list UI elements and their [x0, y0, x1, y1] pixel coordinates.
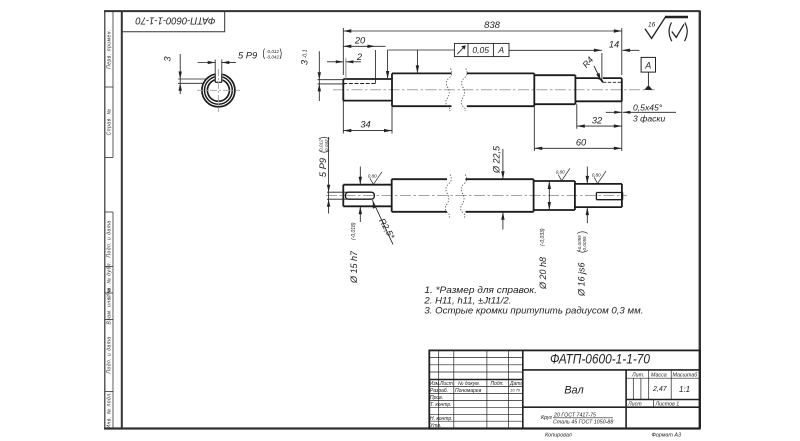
svg-text:Лит.: Лит.: [631, 372, 644, 378]
margin label Perv primen: [107, 29, 113, 428]
svg-text:ФАТП-0600-1-1-70: ФАТП-0600-1-1-70: [550, 352, 650, 367]
R4 callout: [580, 55, 600, 81]
keyway hidden line left (top view): [343, 79, 375, 84]
svg-text:32: 32: [592, 115, 603, 125]
dimension dia 16 js6: [586, 167, 588, 224]
svg-text:Лист: Лист: [627, 401, 642, 407]
runout leader arrows: [388, 50, 455, 78]
roughness symbol general: [645, 17, 688, 39]
dimension 3 (section): [178, 54, 207, 94]
svg-text:Взам. инв. №: Взам. инв. №: [107, 287, 113, 324]
dimension 60: [534, 106, 622, 151]
svg-text:A: A: [644, 61, 651, 71]
datum A symbol: [641, 57, 655, 90]
shaft outline bottom view: [343, 179, 622, 212]
svg-text:3. Острые кромки притупить рад: 3. Острые кромки притупить радиусом 0,3 …: [424, 306, 643, 316]
dimension 3 -0,1 (top view): [318, 51, 346, 101]
svg-text:Подп. и дата: Подп. и дата: [107, 220, 113, 257]
chamfer callout 0,5x45: [606, 111, 676, 113]
dimension 5 P9 (bottom view): [327, 137, 351, 214]
svg-text:Т. контр.: Т. контр.: [430, 402, 452, 408]
svg-text:34: 34: [360, 120, 370, 130]
svg-text:Ø 16 js6: Ø 16 js6: [577, 262, 587, 297]
svg-text:Ø 22,5: Ø 22,5: [492, 145, 502, 174]
svg-text:3: 3: [163, 56, 173, 62]
svg-text:838: 838: [484, 20, 501, 31]
svg-text:0,5x45°: 0,5x45°: [633, 102, 663, 112]
dimension 5 P9 (section): [198, 60, 236, 74]
roughness mark on dia16 keyway: [594, 171, 606, 183]
svg-text:2: 2: [356, 52, 363, 62]
svg-text:1. *Размер для справок.: 1. *Размер для справок.: [424, 285, 537, 295]
dimension 32: [577, 101, 622, 151]
svg-text:60: 60: [576, 137, 587, 147]
dimension 838: [343, 28, 622, 75]
svg-text:Изм.: Изм.: [430, 381, 441, 387]
svg-text:Масса: Масса: [651, 372, 667, 378]
svg-text:Подп.: Подп.: [491, 381, 504, 387]
svg-text:Круг: Круг: [541, 415, 553, 421]
dimension 2: [327, 58, 361, 80]
svg-text:10.70: 10.70: [510, 388, 521, 393]
svg-text:№ докум.: № докум.: [458, 381, 480, 387]
svg-text:14: 14: [609, 39, 619, 49]
svg-text:-0,042: -0,042: [266, 54, 279, 59]
section circles: [202, 74, 235, 107]
dimension dia 20 h8: [548, 181, 550, 210]
svg-text:Копировал: Копировал: [545, 432, 572, 438]
svg-text:Сталь 45 ГОСТ 1050-88: Сталь 45 ГОСТ 1050-88: [553, 420, 613, 426]
thick inner lines: [522, 350, 524, 428]
lit massa masshtab: [627, 372, 698, 407]
centerline bottom view: [326, 195, 627, 197]
svg-text:0,05: 0,05: [472, 45, 489, 55]
below frame texts: [545, 432, 681, 438]
section centerlines: [197, 69, 240, 112]
svg-text:Справ. №: Справ. №: [107, 109, 113, 136]
svg-text:3: 3: [300, 59, 310, 65]
break lines top view: [446, 69, 467, 112]
svg-text:-0,042: -0,042: [324, 139, 329, 152]
svg-text:Утв.: Утв.: [430, 423, 441, 429]
svg-text:Пономарев: Пономарев: [455, 388, 482, 394]
svg-text:-0,1: -0,1: [303, 49, 309, 58]
svg-text:Лист: Лист: [439, 381, 453, 387]
shaft outline top view: [343, 73, 622, 106]
break lines bottom view: [445, 175, 466, 218]
dimension dia 22,5: [502, 149, 504, 230]
svg-text:Формат А3: Формат А3: [652, 432, 682, 438]
R2,5 callout: [372, 200, 397, 244]
svg-text:Ø 20 h8: Ø 20 h8: [538, 257, 548, 290]
svg-text:Перв. примен.: Перв. примен.: [107, 29, 113, 69]
svg-text:Инв. № подл.: Инв. № подл.: [107, 391, 113, 428]
keyway slot left (bottom view): [345, 192, 374, 199]
svg-text:Ø 15 h7: Ø 15 h7: [349, 250, 359, 284]
material: [541, 413, 613, 426]
keyway slot right (bottom view): [596, 193, 622, 200]
svg-text:Пров.: Пров.: [430, 395, 443, 401]
svg-text:Подп. и дата: Подп. и дата: [107, 336, 113, 373]
svg-text:ФАТП-0600-1-1-70: ФАТП-0600-1-1-70: [135, 15, 215, 27]
svg-text:20: 20: [354, 36, 366, 46]
svg-text:Масштаб: Масштаб: [673, 372, 699, 378]
svg-text:-0,0055: -0,0055: [582, 236, 587, 252]
svg-text:2. Н11, h11, ±Jt11/2.: 2. Н11, h11, ±Jt11/2.: [423, 295, 511, 305]
margin column lines: [105, 11, 113, 428]
dimension 34: [343, 101, 392, 134]
svg-text:(-0,018): (-0,018): [351, 222, 357, 240]
roughness mark on keyway (bottom view left): [370, 172, 382, 185]
svg-text:16: 16: [648, 21, 656, 28]
title block thin grid: [429, 350, 700, 428]
svg-text:Н. контр.: Н. контр.: [430, 416, 453, 422]
dimension 14: [509, 50, 639, 79]
svg-text:5 P9: 5 P9: [238, 51, 257, 61]
svg-text:5 P9: 5 P9: [318, 158, 328, 177]
keyway hidden line right (top view): [603, 81, 622, 83]
notes: [423, 285, 643, 316]
svg-text:Дата: Дата: [509, 381, 523, 387]
svg-text:Разраб.: Разраб.: [430, 388, 448, 394]
designation box top-left rotated: [122, 11, 225, 32]
svg-text:A: A: [497, 45, 504, 55]
svg-text:0,80: 0,80: [556, 170, 565, 175]
sheet frame: [104, 11, 700, 429]
svg-text:Вал: Вал: [564, 385, 584, 397]
keyway slot in section: [215, 71, 223, 83]
runout tolerance frame 0,05 A: [454, 43, 509, 56]
svg-text:Листов 1: Листов 1: [655, 401, 680, 407]
dimension dia 15 h7: [359, 167, 361, 223]
svg-text:3 фаски: 3 фаски: [633, 113, 665, 123]
svg-text:0,80: 0,80: [368, 174, 377, 179]
svg-text:0,80: 0,80: [592, 172, 601, 177]
svg-text:(-0,033): (-0,033): [540, 228, 546, 246]
roughness symbol in brackets: [669, 23, 687, 42]
title block header texts: [430, 381, 524, 429]
centerline top view: [333, 89, 655, 91]
dimension 20: [343, 46, 385, 79]
svg-text:1:1: 1:1: [679, 385, 690, 394]
svg-text:2,47: 2,47: [652, 386, 668, 393]
roughness mark on dia20: [558, 168, 570, 180]
